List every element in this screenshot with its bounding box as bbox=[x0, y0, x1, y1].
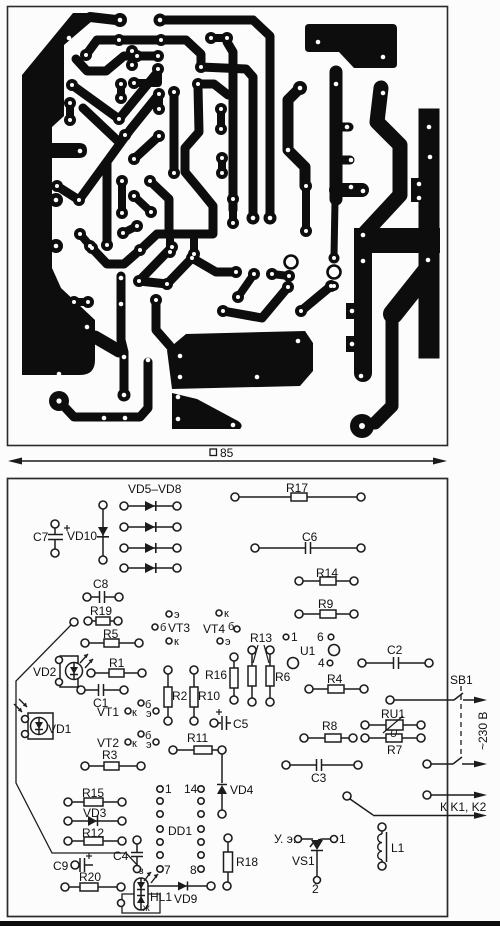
drill holes bbox=[332, 256, 336, 260]
resistor R12 bbox=[70, 840, 120, 842]
pads bbox=[205, 32, 217, 44]
diode VD4 lead bbox=[221, 752, 223, 783]
wire: left vertical bar (right cluster) bbox=[354, 237, 372, 373]
white drill holes bbox=[54, 18, 433, 429]
pads bbox=[217, 305, 229, 317]
component pads (black annulus) on top PCB bbox=[51, 13, 340, 402]
lead pads bbox=[378, 823, 386, 831]
svg-text:8: 8 bbox=[190, 863, 197, 877]
drill holes bbox=[88, 244, 92, 248]
pads bbox=[153, 130, 165, 142]
wire: branch bbox=[192, 258, 234, 272]
svg-text:U: U bbox=[390, 729, 398, 740]
lead pads bbox=[169, 746, 177, 754]
drill holes bbox=[168, 250, 172, 254]
pads bbox=[186, 252, 198, 264]
drill holes bbox=[68, 101, 72, 105]
svg-text:VD3: VD3 bbox=[83, 806, 107, 820]
wire: right-bottom wide diagonal bbox=[393, 270, 428, 314]
svg-text:85: 85 bbox=[220, 446, 234, 460]
lead pads bbox=[288, 658, 299, 669]
R13 leader lines bbox=[253, 645, 258, 663]
pads bbox=[51, 180, 63, 192]
lead pads bbox=[22, 716, 29, 723]
resistor R4 bbox=[313, 688, 360, 690]
pour bump pad bbox=[49, 193, 63, 207]
resistor R2 (vertical) bbox=[167, 672, 169, 719]
open mounting hole circle bbox=[285, 256, 298, 269]
svg-text:C2: C2 bbox=[387, 643, 403, 657]
capacitor C5 bbox=[216, 722, 221, 724]
wire: top bus bar bbox=[160, 16, 253, 25]
lead pads bbox=[423, 760, 431, 768]
lead pads bbox=[248, 646, 256, 654]
lead pads bbox=[216, 610, 222, 616]
stub of E-bar bbox=[336, 123, 349, 132]
svg-text:э: э bbox=[146, 739, 152, 751]
drill holes bbox=[148, 179, 152, 183]
lead pads bbox=[61, 883, 69, 891]
lead pads bbox=[190, 666, 198, 674]
lead pads bbox=[386, 696, 394, 704]
lead pads bbox=[210, 719, 218, 727]
pads bbox=[80, 49, 92, 61]
svg-text:VD4: VD4 bbox=[230, 783, 254, 797]
svg-text:R16: R16 bbox=[205, 668, 227, 682]
wire: short pair bbox=[211, 34, 227, 42]
drill holes bbox=[170, 245, 174, 249]
svg-text:к: к bbox=[132, 707, 137, 719]
lead pads bbox=[99, 501, 107, 509]
thyristor VS1 gate lead bbox=[302, 838, 313, 840]
drill holes bbox=[345, 125, 350, 130]
wire: diagonal bbox=[57, 186, 79, 200]
resistor R1 bbox=[93, 672, 140, 674]
lead pads bbox=[198, 786, 204, 792]
pads bbox=[295, 305, 307, 317]
wire: pads pair bbox=[272, 274, 289, 276]
diode VD4 symbol bbox=[217, 785, 227, 794]
pads bbox=[227, 193, 239, 205]
wire: E-bar vertical bbox=[330, 72, 343, 199]
pads bbox=[266, 268, 278, 280]
resistor R8 bbox=[308, 737, 349, 739]
wire: V trace bbox=[72, 74, 156, 119]
drill holes bbox=[119, 82, 123, 86]
wire: vertical pair bbox=[66, 103, 74, 120]
capacitor C4 (vertical) bbox=[136, 843, 138, 852]
lead pads bbox=[64, 798, 72, 806]
capacitor C1 bbox=[83, 689, 98, 691]
wire: short vertical bbox=[302, 190, 310, 229]
resistor R19 bbox=[90, 620, 116, 622]
wire: C-shaped bottom-left trace bbox=[59, 362, 148, 417]
svg-text:VD2: VD2 bbox=[33, 665, 57, 679]
stub pad left bbox=[346, 336, 364, 352]
photodiode VD1 package outline bbox=[28, 713, 53, 739]
pads bbox=[164, 246, 176, 258]
svg-text:C9: C9 bbox=[53, 859, 69, 873]
wire: elbow into H bar bbox=[150, 181, 169, 234]
arm of E-bar bbox=[336, 183, 362, 197]
wire: right edge vertical bar bbox=[419, 119, 440, 348]
drill holes bbox=[252, 272, 256, 276]
wire: stub bbox=[166, 234, 174, 251]
lead pads bbox=[84, 617, 92, 625]
svg-text:У. э.: У. э. bbox=[274, 832, 296, 846]
lead pads bbox=[361, 721, 369, 729]
drill holes bbox=[123, 133, 127, 137]
svg-text:э: э bbox=[225, 636, 231, 648]
wire: pour to pad bbox=[90, 17, 116, 20]
svg-text:7: 7 bbox=[164, 863, 171, 877]
wire: vertical bbox=[218, 158, 226, 173]
drill holes bbox=[135, 54, 139, 58]
lead pads bbox=[295, 610, 303, 618]
lead pads bbox=[51, 520, 59, 528]
wire: diagonal bbox=[167, 258, 192, 284]
drill holes bbox=[102, 416, 107, 421]
wire: bowl trace bbox=[90, 246, 140, 264]
svg-text:К K1, K2: К K1, K2 bbox=[440, 800, 487, 814]
capacitor C7 plates bbox=[48, 534, 63, 536]
C9 plus sign bbox=[86, 853, 92, 859]
lead pads bbox=[125, 739, 131, 745]
drill holes bbox=[176, 395, 181, 400]
svg-text:VD10: VD10 bbox=[67, 529, 97, 543]
wire: bus corner down right bbox=[253, 20, 270, 216]
pads bbox=[68, 296, 80, 308]
svg-text:C3: C3 bbox=[311, 771, 327, 785]
lead pads bbox=[343, 792, 351, 800]
svg-text:~230 В: ~230 В bbox=[476, 712, 490, 750]
wire: link bbox=[139, 281, 167, 284]
pads bbox=[166, 241, 178, 253]
diode VD10 lead bbox=[102, 507, 104, 558]
svg-text:R4: R4 bbox=[327, 672, 343, 686]
wire: diagonal bbox=[134, 136, 159, 159]
wire: mid vertical to big pad bbox=[375, 312, 392, 423]
C7 plus sign bbox=[64, 525, 70, 531]
resistor R14 bbox=[303, 580, 350, 582]
svg-text:R2: R2 bbox=[172, 689, 188, 703]
svg-text:R5: R5 bbox=[103, 627, 119, 641]
pads bbox=[64, 97, 76, 109]
wire: pair bbox=[74, 298, 88, 306]
lead pads bbox=[305, 685, 313, 693]
diode VD9 bbox=[148, 885, 207, 887]
VS1 anode lead to pin 1 bbox=[318, 839, 322, 840]
drill holes bbox=[118, 18, 123, 23]
svg-text:RU1: RU1 bbox=[381, 707, 405, 721]
big round pad bottom-left bbox=[49, 391, 69, 411]
drill holes bbox=[122, 393, 127, 398]
lead pads bbox=[133, 836, 141, 844]
svg-text:C5: C5 bbox=[233, 717, 249, 731]
diode VD8 symbol bbox=[145, 563, 155, 573]
svg-text:4: 4 bbox=[318, 656, 325, 670]
wire: pour wide diagonal bbox=[95, 337, 119, 351]
wire: descending trace bbox=[288, 88, 305, 186]
svg-text:VS1: VS1 bbox=[292, 854, 315, 868]
wire: diagonal bbox=[301, 286, 331, 311]
wire: horizontal link bbox=[134, 69, 158, 83]
wire: long vertical from pad bbox=[227, 42, 233, 210]
capacitor C6 bbox=[259, 547, 305, 549]
lead pads bbox=[64, 837, 72, 845]
drill holes bbox=[130, 49, 134, 53]
wire: H bar bbox=[140, 234, 213, 250]
resistor R15 bbox=[70, 801, 120, 803]
diode bridge VD5-VD8 leads bbox=[124, 505, 177, 507]
svg-text:R8: R8 bbox=[322, 719, 338, 733]
svg-text:2: 2 bbox=[312, 882, 319, 896]
LED VD2 package outline bbox=[60, 656, 78, 687]
svg-text:VD9: VD9 bbox=[174, 892, 198, 906]
pads bbox=[66, 79, 78, 91]
lead pads bbox=[166, 611, 172, 617]
svg-text:C7: C7 bbox=[33, 530, 49, 544]
svg-text:э: э bbox=[174, 609, 180, 621]
inductor L1 core bar bbox=[386, 832, 388, 862]
diode VD3 bbox=[70, 820, 120, 822]
pads bbox=[118, 389, 131, 402]
svg-text:э: э bbox=[146, 708, 152, 720]
wire: vertical to trapezoid bbox=[156, 300, 170, 346]
lead pads bbox=[218, 810, 226, 818]
lead pads bbox=[295, 577, 303, 585]
arrows to external connections bbox=[474, 697, 487, 819]
pads bbox=[113, 13, 127, 27]
drill holes bbox=[120, 179, 124, 183]
pads bbox=[144, 175, 156, 187]
resistor R5 bbox=[87, 642, 137, 644]
drill holes bbox=[67, 36, 72, 41]
lead pads bbox=[266, 646, 274, 654]
svg-text:DD1: DD1 bbox=[168, 824, 192, 838]
wire: center vertical bbox=[170, 95, 179, 171]
lead pads bbox=[164, 666, 172, 674]
drill holes bbox=[359, 423, 365, 429]
svg-text:C4: C4 bbox=[113, 849, 129, 863]
wire: diagonal bbox=[238, 274, 254, 297]
svg-text:б: б bbox=[228, 621, 234, 633]
stub of E-bar bbox=[336, 156, 350, 165]
lead pads bbox=[361, 734, 369, 742]
svg-text:HL1: HL1 bbox=[150, 890, 172, 904]
lead pads bbox=[56, 657, 63, 664]
svg-text:R12: R12 bbox=[82, 826, 104, 840]
diode VD10 symbol bbox=[98, 527, 108, 536]
wire: vertical pair bbox=[155, 96, 163, 109]
lead pads bbox=[295, 836, 302, 843]
drill holes bbox=[70, 83, 74, 87]
lead pads bbox=[125, 708, 131, 714]
drill holes bbox=[427, 125, 432, 130]
lead pads bbox=[81, 762, 89, 770]
svg-text:L1: L1 bbox=[391, 841, 405, 855]
svg-text:1: 1 bbox=[291, 630, 298, 644]
lead pads bbox=[282, 761, 290, 769]
drill holes bbox=[221, 309, 225, 313]
wire: vertical branch bbox=[103, 163, 112, 243]
switch line 2 with lever bbox=[431, 763, 453, 765]
drill holes bbox=[231, 197, 235, 201]
pads bbox=[248, 268, 260, 280]
wire: top stub bbox=[202, 84, 228, 95]
pads bbox=[115, 78, 127, 90]
svg-text:R3: R3 bbox=[102, 748, 118, 762]
bottom black band (next figure edge) bbox=[0, 921, 500, 926]
drill holes bbox=[417, 182, 422, 187]
lead pads bbox=[283, 634, 289, 640]
drill holes bbox=[132, 194, 136, 198]
svg-text:R14: R14 bbox=[316, 566, 338, 580]
capacitor C7 leads bbox=[54, 526, 56, 534]
pads bbox=[119, 129, 131, 141]
SB1 switch line 1 with lever bbox=[394, 699, 454, 701]
pour bump pad bbox=[49, 239, 63, 253]
drill holes bbox=[361, 259, 366, 264]
ground pour (large left copper area) bbox=[22, 13, 95, 375]
drill holes bbox=[55, 184, 59, 188]
resistor R17 bbox=[239, 496, 357, 498]
VS1 cathode lead to pin 2 bbox=[316, 851, 318, 876]
svg-text:C8: C8 bbox=[93, 577, 109, 591]
lead pads bbox=[300, 734, 308, 742]
svg-text:б: б bbox=[160, 622, 166, 634]
wire: H bar up branch long bbox=[185, 87, 213, 232]
svg-text:R11: R11 bbox=[187, 731, 208, 745]
varistor RU1 bbox=[369, 724, 417, 726]
dimension label square symbol bbox=[210, 449, 217, 456]
lead pads bbox=[71, 861, 79, 869]
drill holes bbox=[220, 156, 224, 160]
svg-text:ж: ж bbox=[143, 903, 150, 914]
dimension line with arrows bbox=[8, 458, 447, 465]
capacitor C2 bbox=[366, 662, 393, 664]
svg-text:R15: R15 bbox=[82, 786, 104, 800]
svg-text:SB1: SB1 bbox=[450, 673, 473, 687]
drill holes bbox=[298, 86, 303, 91]
wire: diagonal bbox=[83, 108, 125, 142]
output line 3 bbox=[431, 794, 477, 796]
drill holes bbox=[190, 256, 194, 260]
drill holes bbox=[316, 40, 321, 45]
lead pads bbox=[83, 593, 91, 601]
svg-text:R20: R20 bbox=[79, 870, 101, 884]
wire: short diagonal bbox=[123, 226, 137, 233]
drill holes bbox=[84, 53, 88, 57]
svg-text:R18: R18 bbox=[236, 855, 258, 869]
photodiode VD1 incoming arrows bbox=[14, 704, 22, 712]
svg-text:R6: R6 bbox=[275, 670, 291, 684]
svg-text:C6: C6 bbox=[302, 530, 318, 544]
svg-text:R17: R17 bbox=[286, 481, 308, 495]
diode VD6 symbol bbox=[145, 522, 155, 532]
wire: diagonal bbox=[139, 247, 172, 281]
svg-text:VT1: VT1 bbox=[97, 705, 119, 719]
photodiode VD1 circle bbox=[31, 718, 48, 735]
bottom: component placement diagram frame bbox=[8, 479, 448, 917]
wire: long vertical with bend bbox=[121, 276, 124, 393]
inductor L1 coil bbox=[378, 834, 382, 860]
lead pads bbox=[224, 834, 232, 842]
lead pads bbox=[230, 653, 238, 661]
tab on right bar bbox=[411, 178, 429, 202]
resistor R13a (vertical) bbox=[251, 652, 253, 700]
capacitor C3 bbox=[290, 764, 316, 766]
drill holes bbox=[270, 272, 274, 276]
resistor R18 (vertical) bbox=[227, 841, 229, 883]
lead pads bbox=[64, 817, 72, 825]
svg-text:VT4: VT4 bbox=[203, 622, 225, 636]
isolation zone boundary polyline bbox=[16, 625, 140, 868]
LED VD2 light arrows bbox=[80, 654, 88, 663]
svg-text:U1: U1 bbox=[300, 644, 316, 658]
inductor L1 leads bbox=[381, 831, 383, 834]
relay contact line 4 bbox=[350, 799, 373, 815]
pads bbox=[150, 294, 162, 306]
svg-text:R19: R19 bbox=[90, 604, 112, 618]
pads bbox=[84, 240, 96, 252]
LED HL1 capsule bbox=[134, 878, 148, 910]
wire: long diagonal bbox=[79, 94, 159, 200]
diode VD5 symbol bbox=[97, 501, 157, 573]
capacitor C9 bbox=[77, 864, 79, 866]
svg-text:VD5–VD8: VD5–VD8 bbox=[128, 482, 182, 496]
thyristor VS1 symbol bbox=[311, 840, 323, 850]
capacitor C8 bbox=[89, 596, 99, 598]
wire: vertical bbox=[229, 199, 237, 223]
svg-text:R9: R9 bbox=[318, 597, 334, 611]
wire: vertical bbox=[118, 181, 126, 213]
junction copper mass bbox=[354, 228, 440, 253]
svg-text:к: к bbox=[224, 608, 229, 620]
triangle copper fill bbox=[172, 393, 242, 429]
drill holes bbox=[157, 134, 161, 138]
resistor R20 bbox=[67, 886, 118, 888]
svg-text:R13: R13 bbox=[250, 631, 272, 645]
svg-text:VD1: VD1 bbox=[48, 722, 72, 736]
lead pads bbox=[207, 882, 215, 890]
wire: stub bbox=[190, 234, 198, 253]
lead pads bbox=[358, 659, 366, 667]
svg-text:з: з bbox=[139, 866, 144, 877]
PCB board outline (top view) bbox=[8, 7, 448, 446]
component lead pads (small circles) bbox=[22, 493, 434, 907]
pads bbox=[116, 175, 128, 187]
pads bbox=[126, 45, 138, 57]
svg-text:к: к bbox=[174, 636, 179, 648]
drill holes bbox=[299, 309, 303, 313]
pads bbox=[131, 50, 143, 62]
C5 plus sign bbox=[216, 709, 222, 715]
drill holes bbox=[178, 354, 183, 359]
resistor R10 (vertical) bbox=[193, 672, 195, 719]
wire: vertical pair bbox=[217, 109, 225, 129]
lead pads bbox=[81, 639, 89, 647]
drill holes bbox=[381, 91, 386, 96]
drill holes bbox=[154, 298, 158, 302]
photodiode VD1 symbol bbox=[35, 722, 43, 729]
lead pads bbox=[77, 686, 85, 694]
pads bbox=[128, 190, 140, 202]
svg-text:1: 1 bbox=[339, 832, 346, 846]
SB1 dashed linkage bbox=[460, 686, 462, 757]
diode VD7 symbol bbox=[145, 543, 155, 553]
lead pads bbox=[231, 493, 239, 501]
